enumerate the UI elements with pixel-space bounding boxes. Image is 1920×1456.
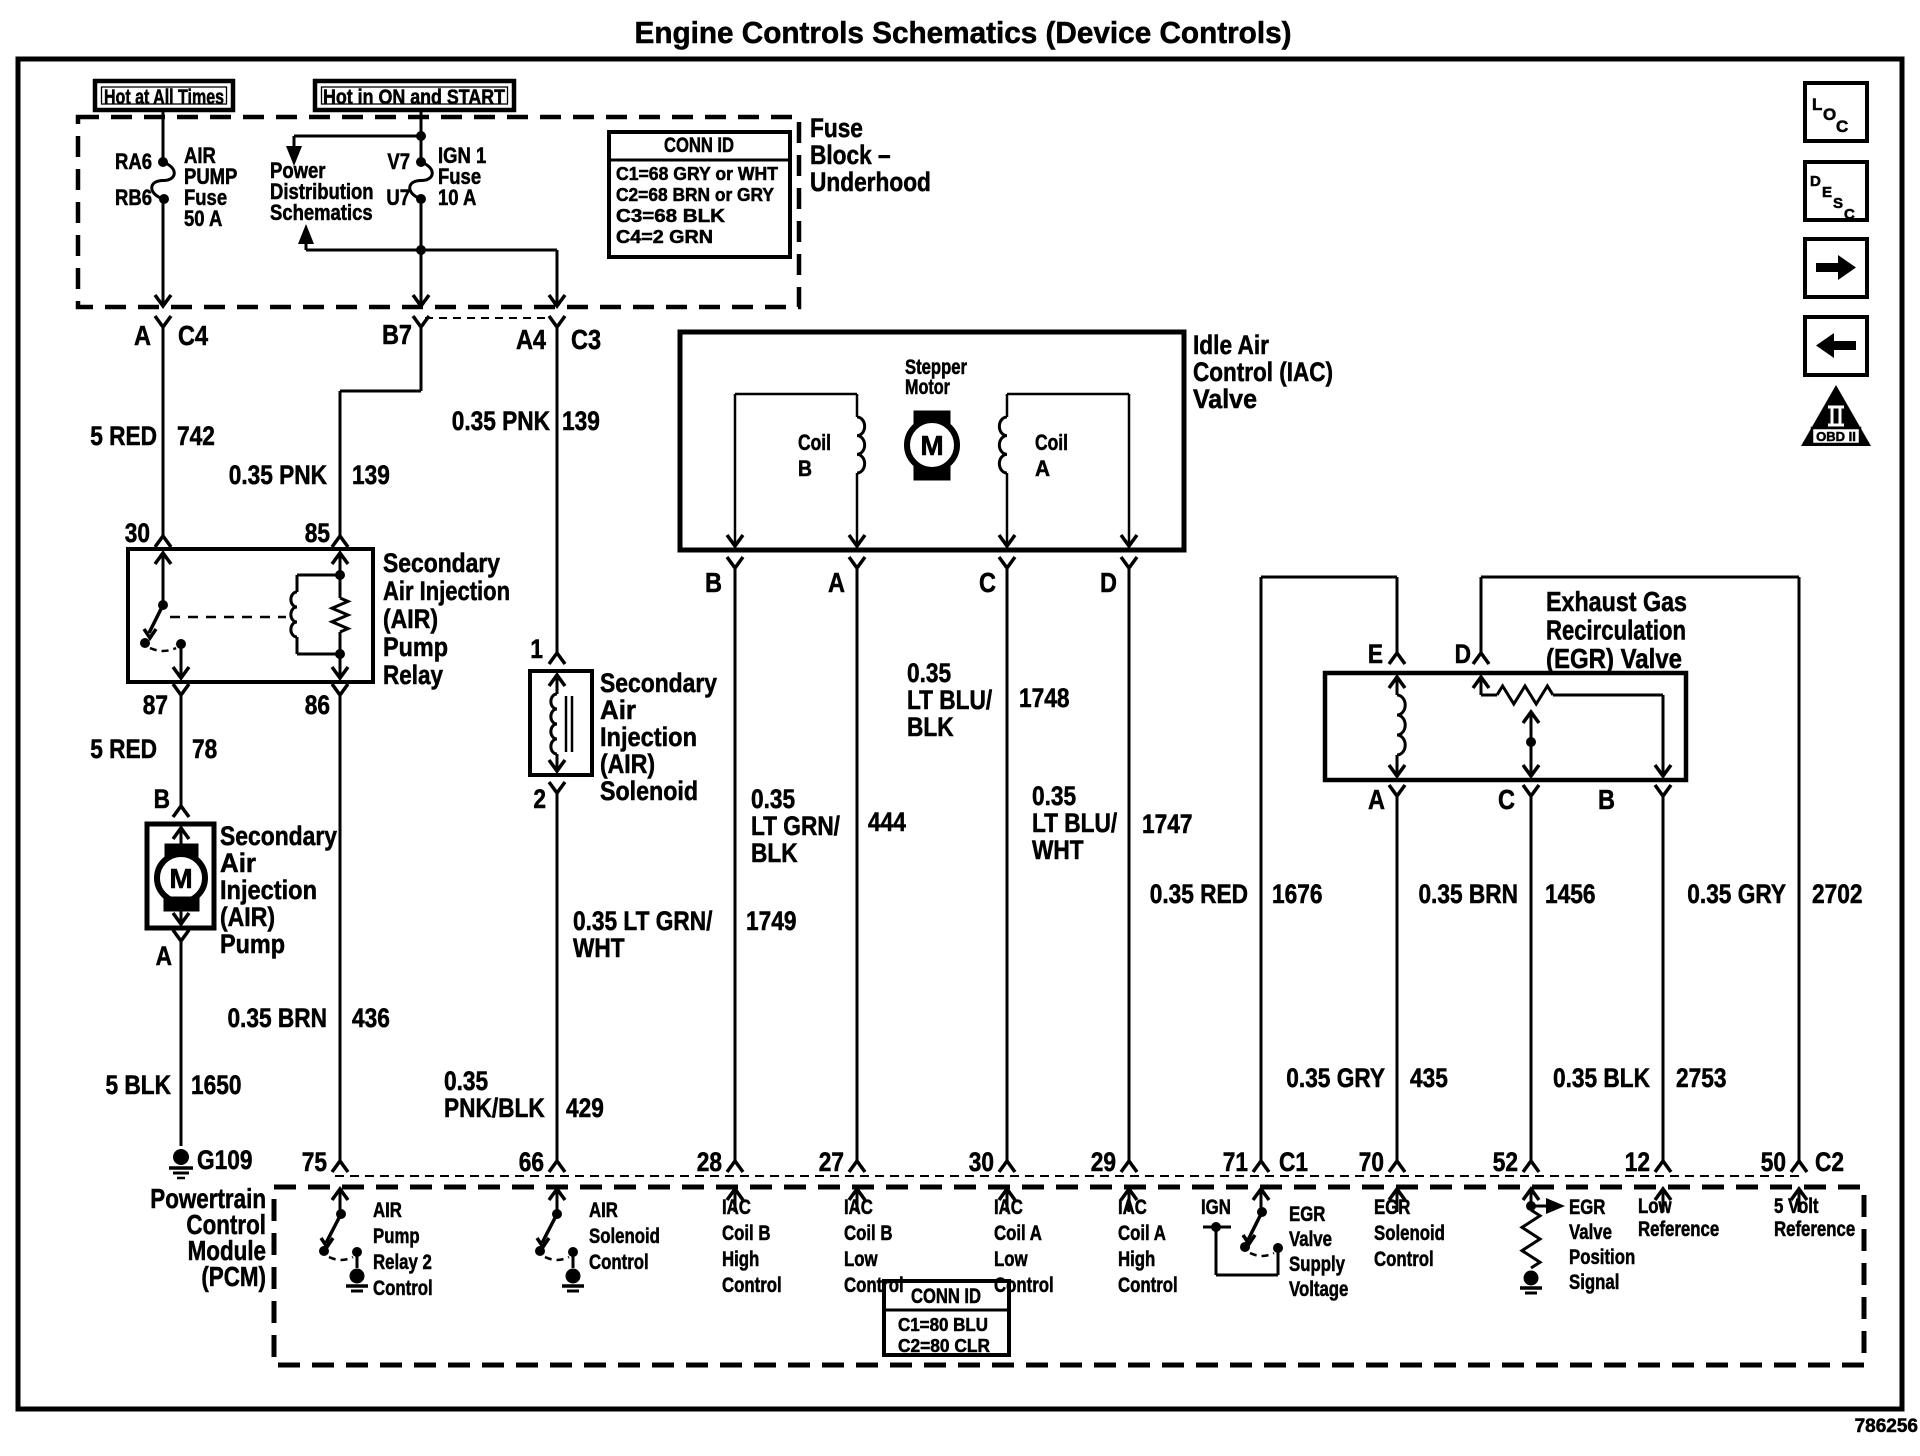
svg-text:C1: C1 [1279, 1147, 1308, 1177]
svg-text:Air Injection: Air Injection [383, 576, 510, 606]
svg-text:Pump: Pump [220, 929, 285, 959]
svg-text:Coil: Coil [1035, 430, 1068, 455]
svg-text:Voltage: Voltage [1289, 1278, 1348, 1301]
svg-text:AIR: AIR [589, 1199, 618, 1222]
svg-text:Fuse: Fuse [810, 113, 863, 143]
svg-text:71: 71 [1223, 1147, 1248, 1177]
svg-text:0.35 RED: 0.35 RED [1150, 879, 1248, 909]
svg-text:139: 139 [352, 460, 390, 490]
svg-text:BLK: BLK [751, 838, 798, 868]
svg-text:1748: 1748 [1019, 683, 1070, 713]
svg-text:C2: C2 [1815, 1147, 1844, 1177]
svg-text:29: 29 [1091, 1147, 1116, 1177]
svg-text:50 A: 50 A [184, 208, 223, 232]
svg-text:87: 87 [143, 690, 168, 720]
svg-text:Solenoid: Solenoid [600, 776, 698, 806]
svg-text:Position: Position [1569, 1246, 1635, 1269]
svg-text:A: A [828, 568, 845, 598]
svg-text:EGR: EGR [1569, 1196, 1606, 1219]
svg-text:Control: Control [994, 1274, 1054, 1297]
svg-text:85: 85 [305, 518, 330, 548]
svg-text:30: 30 [125, 518, 150, 548]
svg-text:Motor: Motor [905, 376, 950, 399]
svg-text:Coil B: Coil B [844, 1222, 892, 1245]
svg-text:U7: U7 [386, 187, 410, 211]
svg-text:EGR: EGR [1289, 1203, 1326, 1226]
svg-text:Control (IAC): Control (IAC) [1193, 357, 1333, 387]
svg-text:Underhood: Underhood [810, 167, 931, 197]
svg-text:AIR: AIR [373, 1199, 402, 1222]
svg-text:C3=68 BLK: C3=68 BLK [616, 205, 726, 226]
svg-text:436: 436 [352, 1003, 390, 1033]
svg-text:C4=2 GRN: C4=2 GRN [616, 226, 713, 247]
svg-text:86: 86 [305, 690, 330, 720]
svg-text:O: O [1823, 105, 1836, 124]
svg-text:0.35 PNK: 0.35 PNK [229, 460, 327, 490]
svg-text:RB6: RB6 [115, 187, 152, 211]
svg-text:0.35 BLK: 0.35 BLK [1553, 1063, 1650, 1093]
svg-text:Reference: Reference [1638, 1218, 1719, 1241]
svg-text:Relay: Relay [383, 660, 443, 690]
svg-text:G109: G109 [197, 1145, 252, 1175]
svg-text:1676: 1676 [1272, 879, 1322, 909]
svg-text:C3: C3 [571, 325, 601, 355]
svg-text:0.35 BRN: 0.35 BRN [227, 1003, 327, 1033]
svg-text:Hot at All Times: Hot at All Times [104, 86, 224, 109]
svg-text:Air: Air [220, 848, 256, 878]
svg-text:(AIR): (AIR) [600, 749, 655, 779]
svg-text:Injection: Injection [600, 722, 697, 752]
svg-text:0.35 LT GRN/: 0.35 LT GRN/ [573, 906, 712, 936]
svg-text:V7: V7 [387, 151, 410, 175]
svg-text:Control: Control [722, 1274, 782, 1297]
svg-text:EGR: EGR [1374, 1196, 1411, 1219]
svg-text:C1=80 BLU: C1=80 BLU [898, 1314, 988, 1335]
svg-text:IGN: IGN [1201, 1196, 1231, 1219]
svg-text:0.35 GRY: 0.35 GRY [1687, 879, 1786, 909]
svg-text:70: 70 [1359, 1147, 1384, 1177]
svg-text:52: 52 [1493, 1147, 1518, 1177]
svg-text:E: E [1822, 184, 1832, 201]
svg-text:Secondary: Secondary [600, 668, 717, 698]
svg-text:S: S [1833, 195, 1843, 212]
svg-text:High: High [1118, 1248, 1155, 1271]
svg-text:Block –: Block – [810, 140, 891, 170]
svg-text:Control: Control [844, 1274, 904, 1297]
svg-text:C1=68 GRY or WHT: C1=68 GRY or WHT [616, 163, 779, 184]
svg-text:Signal: Signal [1569, 1271, 1619, 1294]
svg-text:Valve: Valve [1569, 1221, 1612, 1244]
svg-text:78: 78 [192, 734, 217, 764]
svg-text:A: A [1035, 456, 1050, 481]
svg-text:Supply: Supply [1289, 1253, 1345, 1276]
svg-text:LT BLU/: LT BLU/ [907, 685, 992, 715]
svg-text:50: 50 [1761, 1147, 1786, 1177]
svg-text:PNK/BLK: PNK/BLK [444, 1093, 545, 1123]
svg-text:Pump: Pump [383, 632, 448, 662]
svg-text:Air: Air [600, 695, 636, 725]
svg-text:Control: Control [589, 1251, 649, 1274]
svg-text:435: 435 [1410, 1063, 1448, 1093]
svg-text:0.35 BRN: 0.35 BRN [1418, 879, 1518, 909]
svg-text:C: C [979, 568, 996, 598]
svg-text:Control: Control [1374, 1248, 1434, 1271]
svg-text:5 RED: 5 RED [90, 734, 157, 764]
svg-text:Reference: Reference [1774, 1218, 1855, 1241]
svg-text:Relay 2: Relay 2 [373, 1251, 432, 1274]
svg-text:2753: 2753 [1676, 1063, 1726, 1093]
svg-text:5 Volt: 5 Volt [1774, 1195, 1819, 1218]
svg-text:786256: 786256 [1855, 1416, 1918, 1437]
svg-text:(AIR): (AIR) [383, 604, 438, 634]
svg-text:429: 429 [566, 1093, 604, 1123]
svg-text:10 A: 10 A [438, 187, 477, 211]
svg-text:IAC: IAC [1118, 1196, 1147, 1219]
svg-text:0.35: 0.35 [444, 1066, 488, 1096]
svg-text:WHT: WHT [1032, 835, 1084, 865]
svg-text:CONN ID: CONN ID [664, 134, 734, 157]
svg-text:1650: 1650 [191, 1070, 241, 1100]
svg-text:(AIR): (AIR) [220, 902, 275, 932]
svg-text:139: 139 [562, 406, 600, 436]
svg-text:Valve: Valve [1193, 384, 1257, 414]
svg-text:12: 12 [1625, 1147, 1650, 1177]
svg-text:Coil B: Coil B [722, 1222, 770, 1245]
svg-text:L: L [1812, 95, 1822, 114]
svg-text:1749: 1749 [746, 906, 796, 936]
svg-text:D: D [1455, 639, 1471, 669]
svg-text:WHT: WHT [573, 933, 625, 963]
svg-text:Injection: Injection [220, 875, 317, 905]
svg-text:C2=80 CLR: C2=80 CLR [898, 1335, 990, 1356]
svg-text:2: 2 [533, 784, 546, 814]
svg-text:Low: Low [844, 1248, 878, 1271]
svg-text:D: D [1100, 568, 1117, 598]
svg-text:0.35: 0.35 [1032, 781, 1076, 811]
svg-text:75: 75 [302, 1147, 327, 1177]
svg-text:B: B [1598, 785, 1615, 815]
svg-text:A: A [134, 321, 151, 351]
svg-text:0.35 PNK: 0.35 PNK [452, 406, 550, 436]
svg-text:B: B [798, 456, 812, 481]
svg-text:Control: Control [373, 1277, 433, 1300]
svg-text:A: A [1368, 785, 1385, 815]
svg-text:Exhaust Gas: Exhaust Gas [1546, 586, 1687, 617]
svg-text:Low: Low [1638, 1195, 1672, 1218]
svg-text:1456: 1456 [1545, 879, 1595, 909]
svg-text:D: D [1810, 173, 1821, 190]
svg-text:M: M [920, 430, 943, 461]
svg-text:IAC: IAC [844, 1196, 873, 1219]
svg-text:(PCM): (PCM) [201, 1262, 266, 1293]
svg-text:A: A [156, 941, 172, 971]
svg-text:1747: 1747 [1142, 809, 1192, 839]
svg-text:28: 28 [697, 1147, 722, 1177]
svg-text:C: C [1498, 785, 1515, 815]
svg-text:Control: Control [1118, 1274, 1178, 1297]
svg-text:Valve: Valve [1289, 1228, 1332, 1251]
svg-text:IAC: IAC [722, 1196, 751, 1219]
svg-text:CONN ID: CONN ID [911, 1285, 981, 1308]
svg-text:BLK: BLK [907, 712, 954, 742]
svg-text:E: E [1368, 639, 1383, 669]
svg-text:0.35: 0.35 [907, 658, 951, 688]
svg-text:30: 30 [969, 1147, 994, 1177]
svg-text:1: 1 [530, 634, 543, 664]
svg-text:66: 66 [519, 1147, 544, 1177]
svg-text:A4: A4 [516, 325, 547, 355]
svg-text:Secondary: Secondary [220, 821, 337, 851]
svg-text:0.35: 0.35 [751, 784, 795, 814]
svg-text:RA6: RA6 [115, 151, 152, 175]
svg-text:Low: Low [994, 1248, 1028, 1271]
svg-text:M: M [169, 863, 192, 894]
svg-text:Solenoid: Solenoid [589, 1225, 660, 1248]
svg-text:Recirculation: Recirculation [1546, 615, 1686, 646]
svg-text:Pump: Pump [373, 1225, 420, 1248]
svg-text:B: B [154, 784, 170, 814]
svg-text:Schematics: Schematics [270, 202, 373, 226]
svg-text:OBD II: OBD II [1816, 429, 1856, 444]
svg-text:C4: C4 [178, 321, 209, 351]
svg-text:Solenoid: Solenoid [1374, 1222, 1445, 1245]
svg-text:IAC: IAC [994, 1196, 1023, 1219]
svg-text:C2=68 BRN or GRY: C2=68 BRN or GRY [616, 184, 775, 205]
svg-text:0.35 GRY: 0.35 GRY [1286, 1063, 1385, 1093]
svg-text:Idle Air: Idle Air [1193, 330, 1269, 360]
svg-text:742: 742 [177, 421, 215, 451]
svg-text:Coil A: Coil A [994, 1222, 1042, 1245]
svg-text:Engine Controls Schematics (De: Engine Controls Schematics (Device Contr… [635, 15, 1292, 50]
svg-text:(EGR) Valve: (EGR) Valve [1546, 643, 1682, 674]
svg-text:B: B [705, 568, 722, 598]
svg-text:5 BLK: 5 BLK [105, 1070, 171, 1100]
svg-text:Coil A: Coil A [1118, 1222, 1166, 1245]
svg-text:Coil: Coil [798, 430, 831, 455]
svg-text:LT BLU/: LT BLU/ [1032, 808, 1117, 838]
svg-text:C: C [1836, 117, 1848, 136]
svg-text:Secondary: Secondary [383, 548, 500, 578]
svg-text:444: 444 [868, 807, 906, 837]
svg-text:2702: 2702 [1812, 879, 1862, 909]
svg-text:27: 27 [819, 1147, 844, 1177]
svg-text:B7: B7 [382, 320, 412, 350]
svg-text:5 RED: 5 RED [90, 421, 157, 451]
svg-text:Hot in ON and START: Hot in ON and START [323, 86, 505, 109]
svg-text:High: High [722, 1248, 759, 1271]
svg-text:C: C [1844, 206, 1855, 223]
svg-text:LT GRN/: LT GRN/ [751, 811, 840, 841]
